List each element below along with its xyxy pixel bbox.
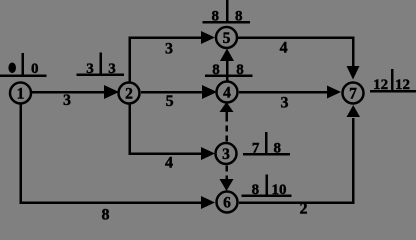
node 4 (217, 82, 238, 103)
svg-text:7: 7 (252, 140, 260, 156)
node 3 (216, 143, 237, 164)
wire dummy edge 3-4 dashed (220, 102, 234, 142)
svg-text:3: 3 (86, 61, 94, 77)
svg-text:3: 3 (165, 41, 173, 58)
wire dummy edge 3-6 dashed (220, 166, 234, 192)
wire edge 2-3 (130, 104, 216, 160)
svg-text:10: 10 (272, 182, 287, 198)
svg-text:6: 6 (223, 195, 231, 212)
svg-text:7: 7 (349, 86, 357, 103)
svg-text:12: 12 (395, 77, 410, 93)
svg-text:2: 2 (125, 86, 133, 103)
node 6 (217, 192, 238, 213)
svg-text:8: 8 (274, 140, 282, 156)
node 5 time label 8|8 (203, 0, 251, 24)
svg-text:8: 8 (211, 8, 219, 24)
node 7 (343, 83, 364, 104)
svg-text:0: 0 (31, 61, 39, 77)
svg-text:4: 4 (223, 85, 231, 102)
svg-text:3: 3 (108, 61, 116, 77)
node 5 (216, 27, 237, 48)
svg-text:3: 3 (281, 95, 289, 112)
svg-text:8: 8 (212, 62, 220, 78)
node 1 (10, 83, 31, 104)
svg-text:4: 4 (280, 40, 288, 57)
wire edge 4-7 (239, 86, 341, 99)
svg-text:4: 4 (165, 155, 173, 172)
wire edge 1-6 (21, 104, 216, 209)
node 7 time label 12|12 (370, 69, 416, 93)
node 6 time label 8|10 (242, 175, 292, 199)
node 2 (119, 83, 140, 104)
svg-text:2: 2 (300, 201, 308, 218)
wire edge 1-2 (31, 85, 119, 99)
node 3 time label 7|8 (243, 132, 290, 156)
svg-text:5: 5 (223, 30, 231, 47)
wire edge 4-5 (220, 49, 234, 82)
svg-text:8: 8 (236, 62, 244, 78)
svg-text:8: 8 (102, 207, 110, 224)
svg-text:5: 5 (166, 93, 174, 110)
wire edge 5-7 (238, 38, 360, 80)
node 4 time label 8|8 (205, 62, 253, 78)
wire edge 2-4 (141, 85, 217, 99)
svg-text:12: 12 (373, 77, 388, 93)
wire edge 2-5 (130, 31, 216, 82)
node 1 time label 0|0 (0, 53, 47, 77)
svg-text:3: 3 (222, 146, 230, 163)
svg-text:3: 3 (63, 92, 71, 109)
svg-text:1: 1 (17, 86, 25, 103)
node 2 time label 3|3 (77, 53, 125, 78)
wire edge 6-7 (239, 105, 360, 203)
svg-text:8: 8 (252, 182, 260, 198)
svg-text:8: 8 (235, 8, 243, 24)
